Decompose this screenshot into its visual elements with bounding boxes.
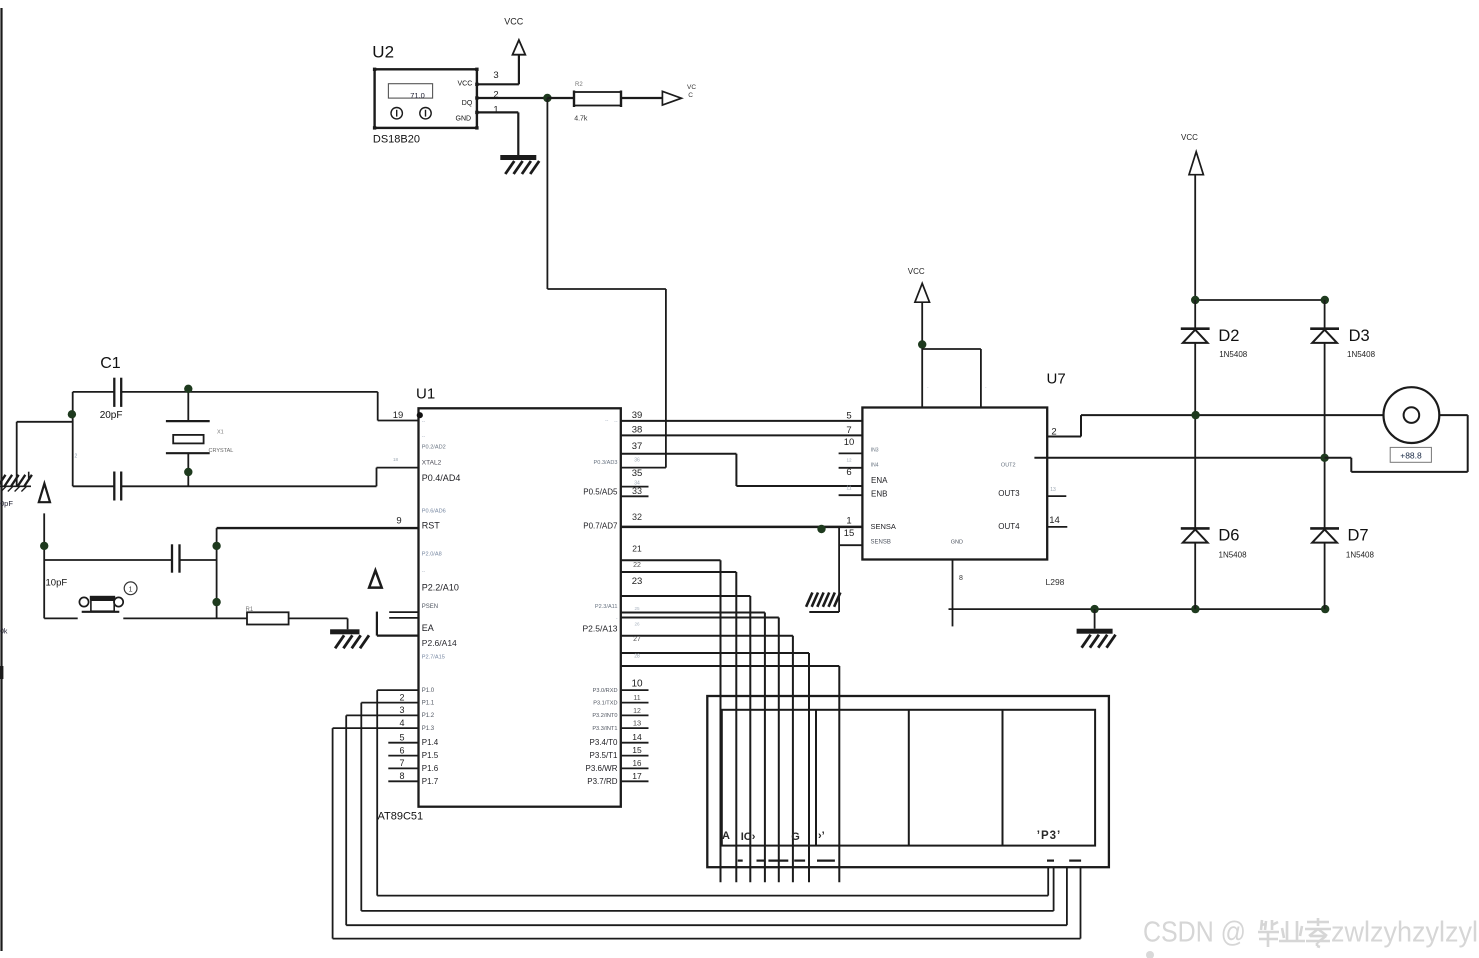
svg-text:P1.0: P1.0 [422, 688, 435, 694]
svg-text:DQ: DQ [462, 100, 473, 107]
svg-text:0pF: 0pF [0, 499, 13, 508]
svg-text:P0.4/AD4: P0.4/AD4 [422, 473, 461, 483]
svg-text:D3: D3 [1349, 327, 1370, 345]
svg-text:P3.0/RXD: P3.0/RXD [593, 688, 618, 694]
svg-text:D7: D7 [1348, 527, 1369, 545]
svg-text:10: 10 [844, 437, 855, 448]
svg-text:›’: ›’ [818, 830, 825, 842]
svg-text:P1.5: P1.5 [422, 751, 439, 760]
svg-text:IN3: IN3 [871, 448, 879, 454]
svg-text:5: 5 [399, 733, 404, 743]
svg-text:12: 12 [633, 708, 641, 715]
svg-text:VCC: VCC [458, 80, 473, 87]
svg-text:1N5408: 1N5408 [1219, 350, 1248, 359]
svg-text:U7: U7 [1047, 371, 1066, 388]
svg-text:ENB: ENB [871, 490, 887, 499]
svg-text:3: 3 [493, 70, 498, 81]
svg-text:SENSA: SENSA [871, 522, 896, 531]
svg-text:--: -- [614, 419, 618, 425]
svg-text:8: 8 [959, 575, 963, 582]
svg-text:3: 3 [399, 705, 404, 715]
svg-text:U1: U1 [416, 386, 435, 403]
svg-text:P0.7/AD7: P0.7/AD7 [583, 521, 618, 530]
svg-text:GND: GND [951, 540, 963, 546]
svg-text:1N5408: 1N5408 [1346, 551, 1375, 560]
svg-text:4: 4 [399, 718, 404, 728]
svg-text:L298: L298 [1046, 577, 1065, 587]
svg-text:P2.0/A8: P2.0/A8 [422, 551, 442, 557]
svg-text:C: C [688, 92, 693, 99]
svg-text:P3.7/RD: P3.7/RD [587, 777, 617, 786]
svg-text:P3.6/WR: P3.6/WR [585, 764, 617, 773]
svg-text:P3.4/T0: P3.4/T0 [589, 738, 618, 747]
svg-text:--: -- [422, 433, 426, 439]
svg-text:U2: U2 [372, 43, 394, 62]
svg-text:7: 7 [399, 758, 404, 768]
svg-text:OUT4: OUT4 [998, 522, 1020, 531]
svg-text:4.7k: 4.7k [574, 115, 588, 122]
svg-text:33: 33 [632, 486, 642, 496]
svg-text:--: -- [422, 569, 426, 575]
svg-text:P3.5/T1: P3.5/T1 [589, 751, 618, 760]
svg-text:1: 1 [493, 104, 498, 115]
svg-text:XTAL2: XTAL2 [422, 460, 442, 467]
svg-text:R1: R1 [246, 607, 254, 613]
svg-text:14: 14 [632, 732, 642, 742]
svg-text:EA: EA [422, 623, 434, 633]
svg-text:P1.4: P1.4 [422, 738, 439, 747]
svg-text:15: 15 [844, 528, 855, 539]
svg-text:--: -- [422, 419, 426, 425]
svg-text:P0.6/AD6: P0.6/AD6 [422, 509, 446, 515]
svg-text:zwlzyhzylzyl: zwlzyhzylzyl [1331, 917, 1478, 949]
svg-text:1N5408: 1N5408 [1347, 350, 1376, 359]
svg-text:2: 2 [399, 692, 404, 702]
svg-text:+88.8: +88.8 [1400, 450, 1422, 460]
svg-text:DS18B20: DS18B20 [373, 133, 420, 145]
svg-text:11: 11 [633, 695, 640, 702]
svg-text:P2.3/A11: P2.3/A11 [595, 604, 618, 610]
svg-text:17: 17 [632, 771, 642, 781]
svg-text:11: 11 [846, 485, 851, 491]
svg-text:6: 6 [399, 745, 404, 755]
svg-text:P2.2/A10: P2.2/A10 [422, 583, 459, 593]
svg-text:71.0: 71.0 [410, 91, 425, 100]
svg-text:19: 19 [393, 410, 404, 421]
svg-text:39: 39 [632, 410, 643, 421]
svg-text:X1: X1 [217, 430, 224, 436]
svg-text:IN4: IN4 [871, 462, 879, 468]
svg-text:R2: R2 [575, 82, 583, 88]
svg-text:35: 35 [632, 468, 643, 479]
svg-text:25: 25 [634, 606, 640, 611]
svg-text:P3.2/INT0: P3.2/INT0 [592, 713, 617, 719]
svg-text:10pF: 10pF [46, 578, 68, 589]
svg-text:36: 36 [634, 458, 640, 464]
svg-text:6: 6 [846, 467, 851, 478]
svg-text:8: 8 [399, 771, 404, 781]
svg-text:’P3’: ’P3’ [1037, 830, 1061, 842]
svg-text:PSEN: PSEN [422, 604, 438, 610]
svg-text:P0.2/AD2: P0.2/AD2 [422, 445, 446, 451]
svg-text:23: 23 [632, 576, 643, 587]
svg-text:13: 13 [633, 719, 641, 728]
svg-text:P3.3/INT1: P3.3/INT1 [592, 726, 617, 732]
svg-text:27: 27 [633, 636, 641, 643]
svg-text:VCC: VCC [908, 267, 925, 276]
svg-text:20pF: 20pF [100, 410, 123, 421]
svg-text:RST: RST [422, 520, 441, 530]
svg-text:ENA: ENA [871, 476, 888, 485]
svg-text:--: -- [605, 418, 609, 424]
svg-text:15: 15 [632, 745, 642, 755]
svg-text:38: 38 [632, 424, 643, 435]
svg-text:C1: C1 [100, 355, 121, 372]
svg-text:P0.3/AD3: P0.3/AD3 [594, 460, 618, 466]
svg-text:0k: 0k [0, 629, 8, 636]
svg-text:14: 14 [1049, 515, 1060, 526]
svg-text:SENSB: SENSB [871, 540, 891, 546]
svg-text:10: 10 [631, 678, 643, 689]
svg-text:1: 1 [846, 516, 851, 527]
svg-text:32: 32 [632, 512, 642, 522]
svg-text:16: 16 [633, 759, 642, 768]
svg-text:VCC: VCC [504, 16, 524, 26]
svg-text:P3.1/TXD: P3.1/TXD [593, 700, 617, 706]
svg-text:13: 13 [1050, 487, 1056, 493]
svg-text:1N5408: 1N5408 [1219, 551, 1248, 560]
svg-text:AT89C51: AT89C51 [378, 811, 424, 823]
svg-text:21: 21 [632, 544, 642, 554]
svg-text:5: 5 [846, 410, 851, 421]
svg-text:1: 1 [129, 587, 133, 594]
svg-text:VC: VC [687, 84, 696, 91]
svg-text:OUT3: OUT3 [998, 489, 1020, 498]
svg-text:P0.5/AD5: P0.5/AD5 [583, 488, 618, 497]
svg-text:A: A [722, 830, 730, 842]
svg-text:P2.6/A14: P2.6/A14 [422, 638, 457, 648]
svg-text:P1.6: P1.6 [422, 764, 439, 773]
svg-text:OUT2: OUT2 [1001, 462, 1016, 468]
svg-text:P2.5/A13: P2.5/A13 [583, 624, 618, 634]
svg-text:VCC: VCC [1181, 133, 1198, 142]
svg-text:P1.1: P1.1 [422, 700, 435, 706]
svg-text:P2.7/A15: P2.7/A15 [422, 654, 445, 660]
svg-text:2: 2 [1051, 427, 1056, 438]
svg-text:CRYSTAL: CRYSTAL [209, 448, 234, 454]
svg-text:P1.7: P1.7 [422, 777, 439, 786]
svg-text:18: 18 [393, 457, 399, 462]
svg-text:P1.3: P1.3 [422, 726, 435, 732]
svg-text:2: 2 [75, 454, 78, 460]
svg-text:7: 7 [846, 425, 851, 436]
svg-text:37: 37 [632, 441, 643, 452]
svg-text:D2: D2 [1218, 327, 1239, 345]
svg-text:12: 12 [846, 457, 852, 462]
svg-text:9: 9 [396, 516, 401, 527]
svg-text:26: 26 [634, 621, 640, 626]
svg-text:G: G [791, 831, 800, 843]
svg-text:P1.2: P1.2 [422, 713, 435, 719]
svg-text:GND: GND [456, 116, 472, 123]
svg-text:CSDN @: CSDN @ [1143, 917, 1246, 949]
svg-text:28: 28 [634, 653, 640, 659]
svg-text:D6: D6 [1218, 527, 1239, 545]
svg-text:22: 22 [633, 562, 641, 569]
svg-text:IC›: IC› [741, 831, 756, 843]
